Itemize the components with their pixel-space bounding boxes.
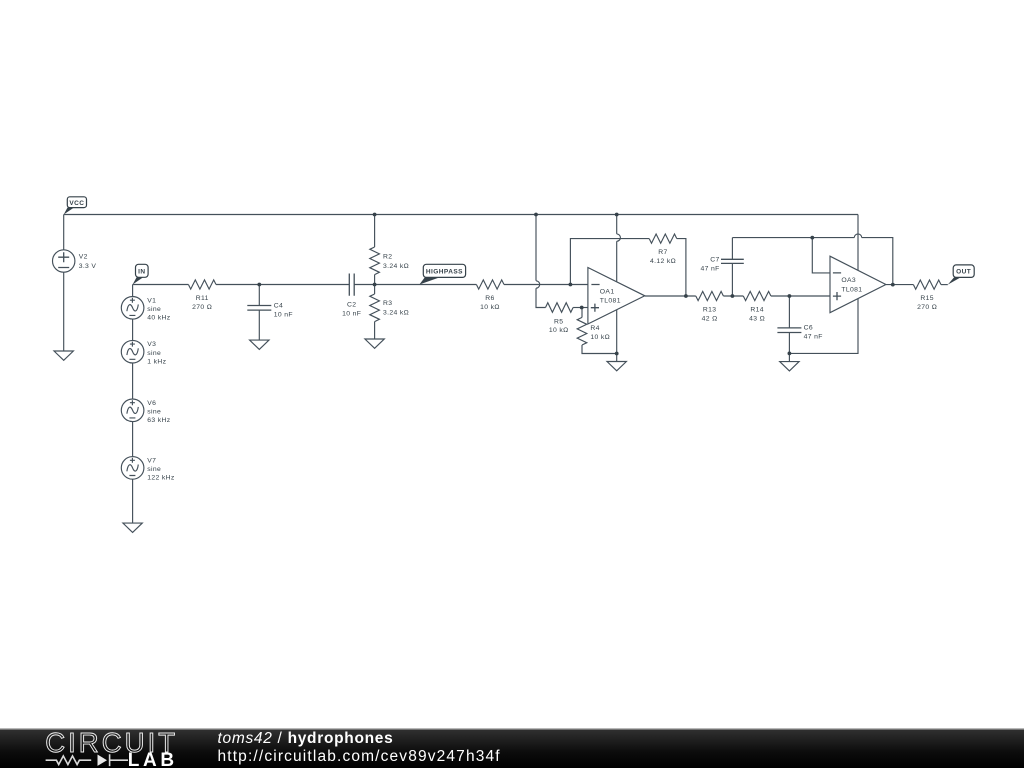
svg-text:R6: R6 xyxy=(485,295,494,302)
svg-text:R4: R4 xyxy=(590,325,599,332)
svg-text:122 kHz: 122 kHz xyxy=(147,475,175,482)
wire R4 bottom to ground node xyxy=(582,345,617,354)
svg-text:R2: R2 xyxy=(383,254,392,261)
wire OA3 minus input xyxy=(812,238,830,273)
svg-text:R14: R14 xyxy=(750,307,764,314)
resistor R7 xyxy=(649,234,677,243)
ground below R3 xyxy=(365,339,384,348)
wire OA1 Vplus supply xyxy=(616,215,618,282)
capacitor C2 xyxy=(349,274,354,296)
wire R4 top lead xyxy=(581,308,583,318)
net flag IN xyxy=(133,264,149,284)
sine source V6 xyxy=(121,399,144,422)
svg-text:V6: V6 xyxy=(147,400,156,407)
ground below OA1 xyxy=(607,362,626,371)
capacitor C7 xyxy=(721,259,744,263)
svg-text:3.3 V: 3.3 V xyxy=(79,263,97,270)
logo resistor and diode glyph xyxy=(46,754,128,766)
svg-text:VCC: VCC xyxy=(69,200,84,207)
footer title xyxy=(218,730,394,748)
wire C6 branch xyxy=(788,296,790,353)
capacitor C6 xyxy=(777,328,801,333)
svg-text:63 kHz: 63 kHz xyxy=(147,417,171,424)
wire C7 branch xyxy=(731,238,733,296)
svg-text:TL081: TL081 xyxy=(841,286,862,293)
svg-text:C2: C2 xyxy=(347,302,356,309)
resistor R14 xyxy=(743,291,771,300)
op-amp OA1 xyxy=(588,268,645,325)
svg-text:sine: sine xyxy=(147,466,161,473)
svg-text:R5: R5 xyxy=(554,318,563,325)
net flag OUT xyxy=(948,265,974,285)
wire OA1 output row xyxy=(645,295,696,297)
svg-text:TL081: TL081 xyxy=(600,298,621,305)
wire OA1 Vminus to ground xyxy=(616,310,618,362)
svg-text:R7: R7 xyxy=(658,249,667,256)
wire V2 top stub xyxy=(63,215,65,250)
svg-text:HIGHPASS: HIGHPASS xyxy=(426,269,463,276)
wire R5 to OA1 plus input xyxy=(573,307,588,309)
sine source V1 xyxy=(121,297,144,320)
wire C2 to R6 xyxy=(354,284,476,286)
wire OA3 output xyxy=(886,284,914,286)
capacitor C4 xyxy=(247,306,271,311)
junction dots xyxy=(257,213,894,356)
svg-text:42 Ω: 42 Ω xyxy=(702,316,718,323)
svg-text:sine: sine xyxy=(147,408,161,415)
svg-text:V3: V3 xyxy=(147,341,156,348)
svg-text:47 nF: 47 nF xyxy=(804,334,823,341)
svg-text:R11: R11 xyxy=(196,295,209,302)
sine source V7 xyxy=(121,457,144,480)
ground below V2 xyxy=(54,351,73,360)
wire hop bias over signal xyxy=(536,281,540,288)
resistor R2 xyxy=(370,247,380,275)
svg-text:C7: C7 xyxy=(710,256,719,263)
svg-text:V1: V1 xyxy=(147,297,156,304)
resistor R3 xyxy=(370,294,380,322)
wire R14 to OA3 plus input xyxy=(771,295,830,297)
net flag HIGHPASS xyxy=(419,264,465,284)
svg-text:V2: V2 xyxy=(79,254,88,261)
svg-text:3.24 kΩ: 3.24 kΩ xyxy=(383,263,409,270)
voltage source V2 xyxy=(53,250,75,272)
ground below V7 xyxy=(123,523,142,532)
svg-text:270 Ω: 270 Ω xyxy=(917,304,937,311)
resistor R4 xyxy=(577,317,587,345)
svg-text:10 nF: 10 nF xyxy=(274,312,293,319)
op-amp OA3 xyxy=(830,256,886,313)
svg-text:C6: C6 xyxy=(804,325,813,332)
wire C4 branch xyxy=(258,285,260,341)
wire IN to R11 xyxy=(133,284,189,286)
wire R6 to OA1 minus input xyxy=(504,284,588,286)
net flag VCC xyxy=(64,197,87,215)
svg-text:sine: sine xyxy=(147,350,161,357)
footer url xyxy=(218,748,501,766)
wire R3 branch xyxy=(374,285,376,340)
wire OA3 feedback line xyxy=(732,238,892,285)
sine source V3 xyxy=(121,340,144,363)
svg-text:10 kΩ: 10 kΩ xyxy=(480,304,500,311)
svg-text:OUT: OUT xyxy=(956,269,971,276)
svg-text:OA3: OA3 xyxy=(841,277,856,284)
svg-text:270 Ω: 270 Ω xyxy=(192,304,212,311)
ground below C4 xyxy=(250,340,269,349)
svg-text:40 kHz: 40 kHz xyxy=(147,314,171,321)
wire R2 branch xyxy=(374,215,376,285)
ground below C6 xyxy=(780,362,799,371)
svg-text:10 nF: 10 nF xyxy=(342,311,361,318)
resistor R6 xyxy=(476,280,504,289)
resistor R5 xyxy=(546,303,574,313)
wire OA1 minus feedback up xyxy=(570,239,649,285)
wire R7 to output node xyxy=(677,239,686,296)
svg-text:OA1: OA1 xyxy=(600,288,615,295)
svg-text:1 kHz: 1 kHz xyxy=(147,358,166,365)
wire OA3 Vplus supply xyxy=(857,215,859,271)
svg-text:R15: R15 xyxy=(920,295,934,302)
resistor R11 xyxy=(188,280,216,289)
svg-text:10 kΩ: 10 kΩ xyxy=(590,334,610,341)
svg-text:sine: sine xyxy=(147,306,161,313)
wire R11 to C2 xyxy=(216,284,349,286)
wire V1 chain xyxy=(132,285,134,524)
wire R15 to OUT xyxy=(941,284,948,286)
svg-text:3.24 kΩ: 3.24 kΩ xyxy=(383,310,409,317)
svg-text:LAB: LAB xyxy=(128,750,178,768)
wire bias divider from rail xyxy=(536,215,546,308)
wire V2 bottom xyxy=(63,272,65,351)
svg-text:43 Ω: 43 Ω xyxy=(749,316,765,323)
resistor R13 xyxy=(696,291,724,300)
wire hop supply over feedback xyxy=(617,234,621,241)
svg-text:IN: IN xyxy=(138,268,145,275)
wire OA3 Vminus to ground node xyxy=(789,299,858,362)
svg-text:47 nF: 47 nF xyxy=(701,265,720,272)
svg-text:4.12 kΩ: 4.12 kΩ xyxy=(650,258,676,265)
svg-text:R3: R3 xyxy=(383,300,392,307)
svg-text:10 kΩ: 10 kΩ xyxy=(549,327,569,334)
svg-text:C4: C4 xyxy=(274,302,283,309)
wire R13 to R14 xyxy=(723,295,743,297)
svg-text:V7: V7 xyxy=(147,457,156,464)
wire VCC rail xyxy=(64,214,858,216)
wire hop supply over OA3 feedback xyxy=(854,234,861,238)
resistor R15 xyxy=(913,280,941,289)
svg-text:R13: R13 xyxy=(703,307,717,314)
